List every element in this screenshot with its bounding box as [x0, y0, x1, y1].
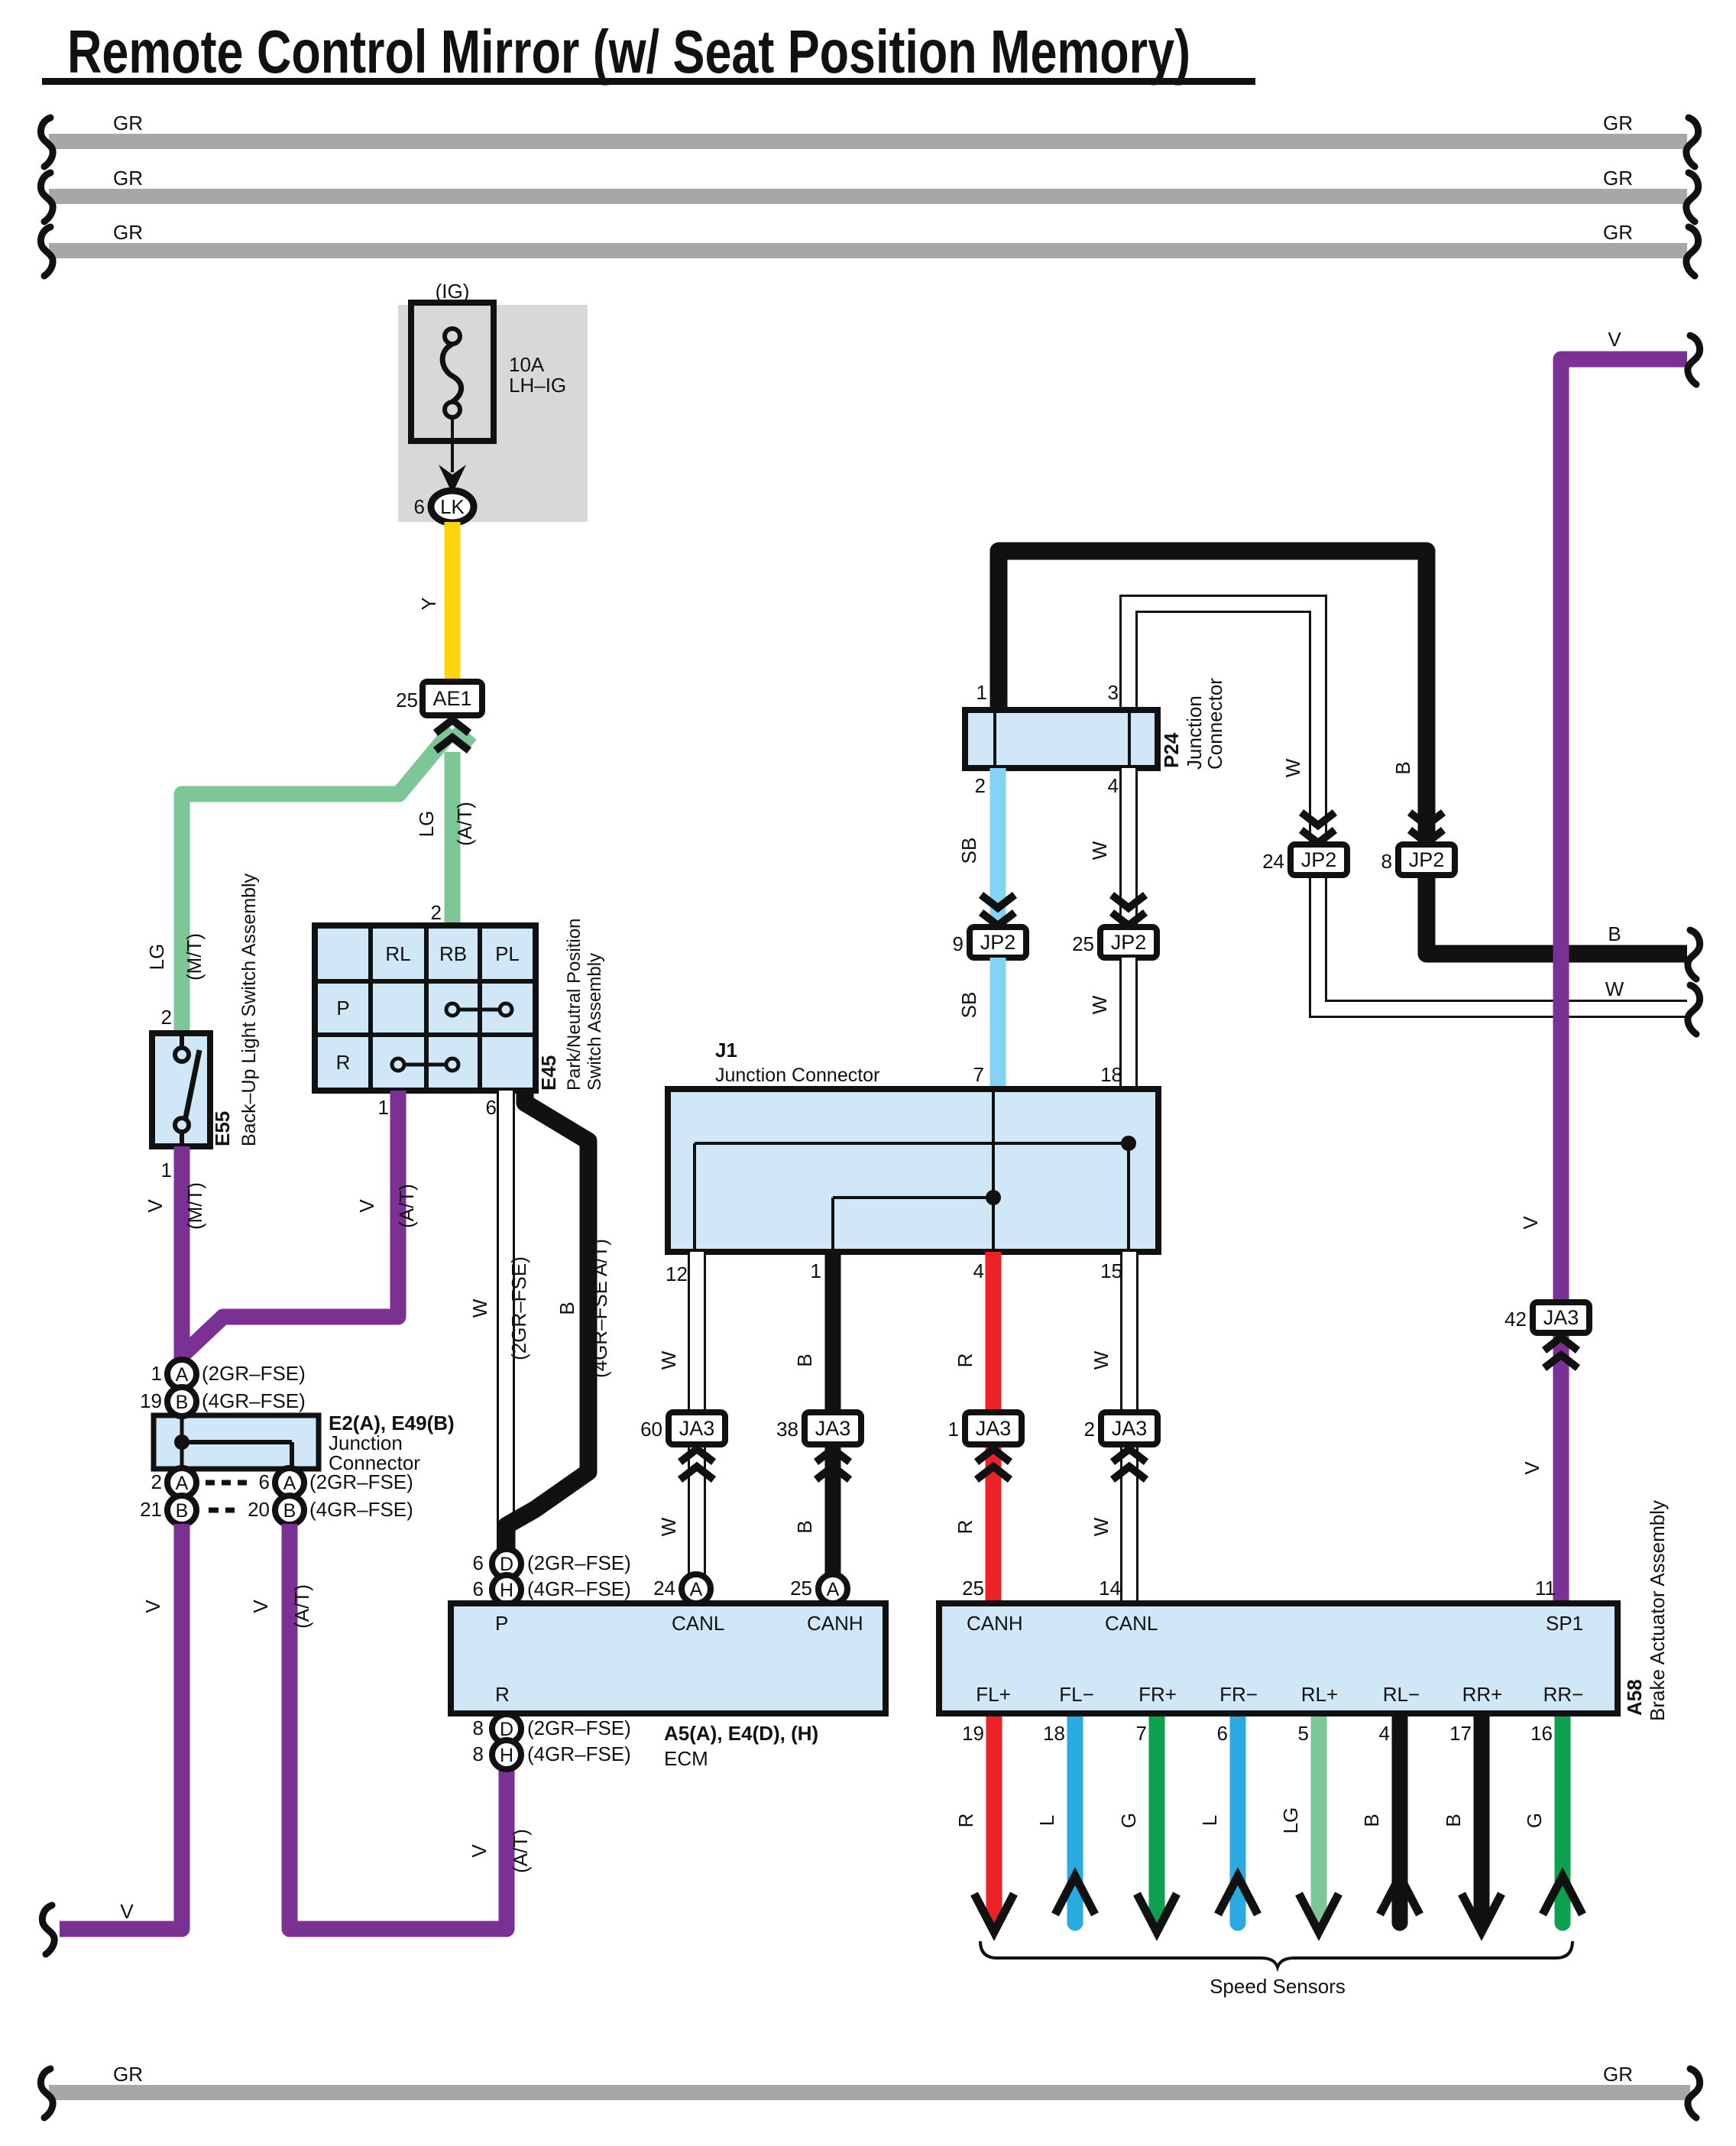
svg-text:V: V [1608, 328, 1621, 351]
wire SB P24 to JP2 9 [957, 768, 998, 927]
wire R J1 pin4 to JA3 1 [954, 1252, 993, 1412]
svg-text:B: B [1360, 1814, 1383, 1827]
svg-text:Switch Assembly: Switch Assembly [585, 953, 605, 1091]
connector JA3 38 [776, 1412, 861, 1444]
pin 1 label J1 [811, 1259, 821, 1282]
svg-text:L: L [1035, 1815, 1058, 1826]
svg-text:(2GR–FSE): (2GR–FSE) [202, 1362, 306, 1385]
svg-text:JP2: JP2 [1111, 931, 1147, 954]
svg-text:9: 9 [953, 932, 964, 955]
wire R JA3 1 to A58 [954, 1444, 993, 1603]
svg-text:3: 3 [1108, 681, 1119, 704]
svg-text:1: 1 [378, 1096, 389, 1119]
svg-text:A: A [176, 1364, 189, 1386]
pin 3 label P24 [1108, 681, 1119, 704]
terminal 6 LK [414, 491, 474, 523]
label A5(A) E4(D) (H) [664, 1722, 818, 1745]
svg-text:W: W [468, 1298, 491, 1318]
svg-text:W: W [1605, 977, 1624, 1000]
svg-text:GR: GR [113, 167, 143, 190]
svg-text:A58: A58 [1623, 1679, 1646, 1716]
svg-text:(4GR–FSE): (4GR–FSE) [527, 1577, 631, 1600]
chevrons from JA3 42 [1544, 1337, 1578, 1368]
svg-text:A: A [690, 1579, 703, 1600]
svg-text:E45: E45 [537, 1055, 560, 1091]
svg-text:V: V [120, 1900, 134, 1923]
pin 4 label J1 [973, 1259, 984, 1282]
dashes B row [209, 1508, 235, 1513]
fuse block background [398, 305, 588, 522]
svg-text:A: A [827, 1579, 840, 1600]
pin 1 label E55 [161, 1159, 172, 1182]
wire W P24 pin3 to JP2 pin24 [1129, 604, 1318, 844]
chevrons into JP2 25 [1112, 895, 1145, 926]
svg-text:CANH: CANH [807, 1612, 863, 1635]
pin 25 label [396, 689, 418, 712]
connector JP2 25 [1072, 927, 1157, 958]
svg-text:B: B [176, 1500, 189, 1522]
svg-text:(M/T): (M/T) [183, 933, 206, 981]
svg-text:6: 6 [473, 1551, 484, 1574]
wire GR rail 1 [40, 112, 1698, 167]
A58 box [939, 1603, 1618, 1713]
svg-text:(A/T): (A/T) [290, 1584, 313, 1629]
label E55 [211, 1111, 234, 1146]
svg-text:RL−: RL− [1383, 1683, 1420, 1706]
svg-text:D: D [500, 1719, 513, 1740]
svg-text:V: V [144, 1199, 167, 1213]
wire W J1 pin15 to JA3 2 [1090, 1252, 1129, 1412]
wire V A/T E45 to E2 [183, 1091, 418, 1354]
svg-text:Connector: Connector [1203, 678, 1226, 770]
wire GR rail 3 [40, 221, 1698, 276]
svg-text:JA3: JA3 [679, 1417, 715, 1440]
svg-text:P: P [336, 997, 349, 1020]
label Back-Up Light Switch Assembly [238, 873, 260, 1146]
terminal 21 B [140, 1496, 196, 1525]
svg-text:60: 60 [640, 1418, 662, 1441]
svg-text:E55: E55 [211, 1111, 234, 1146]
svg-text:4: 4 [1108, 774, 1119, 797]
wire GR rail bottom [40, 2063, 1699, 2118]
wire V right edge to JA3 42 [1519, 328, 1700, 1302]
connector JA3 1 [948, 1412, 1022, 1444]
svg-text:GR: GR [113, 221, 143, 244]
svg-text:CANL: CANL [672, 1612, 724, 1635]
svg-text:Back–Up Light Switch Assembly: Back–Up Light Switch Assembly [238, 873, 260, 1146]
svg-text:Y: Y [417, 597, 440, 610]
svg-text:G: G [1523, 1813, 1546, 1828]
svg-text:38: 38 [776, 1418, 798, 1441]
connector JP2 9 [953, 927, 1026, 958]
wire V A/T E2 to ECM [249, 1524, 532, 1929]
wire W JP2 pin24 to right edge [1318, 875, 1700, 1034]
pin 2 label P24 [975, 774, 986, 797]
label ECM [664, 1747, 708, 1770]
label E2(A) E49(B) [329, 1412, 455, 1434]
pin 4 label P24 [1108, 774, 1119, 797]
label Park/Neutral Position [564, 919, 585, 1091]
svg-text:L: L [1198, 1815, 1221, 1826]
pin 15 label J1 [1100, 1259, 1122, 1282]
svg-text:8: 8 [473, 1742, 484, 1765]
wire B speed sensor pin 17 [1442, 1716, 1501, 1932]
svg-text:JP2: JP2 [1409, 848, 1445, 871]
svg-text:B: B [1442, 1814, 1465, 1827]
connector JP2 24 [1262, 844, 1347, 875]
svg-text:1: 1 [811, 1259, 821, 1282]
chevrons into JP2 24 [1301, 812, 1335, 843]
svg-text:V: V [249, 1600, 272, 1613]
svg-text:RR+: RR+ [1462, 1683, 1503, 1706]
svg-text:2: 2 [151, 1470, 162, 1493]
svg-text:FR+: FR+ [1138, 1683, 1177, 1706]
svg-text:B: B [555, 1302, 578, 1315]
label J1 [715, 1039, 737, 1062]
svg-text:1: 1 [976, 681, 987, 704]
svg-text:21: 21 [140, 1498, 162, 1521]
junction connector E2 E49 box [154, 1415, 319, 1469]
chevrons into AE1 [436, 720, 469, 750]
svg-text:H: H [500, 1580, 513, 1601]
connector JP2 8 [1381, 844, 1455, 875]
wire LG M/T branch [145, 730, 452, 1033]
chevrons from JA3 38 [816, 1449, 850, 1480]
svg-text:Junction: Junction [1183, 695, 1206, 770]
svg-text:D: D [500, 1554, 513, 1575]
terminal 6 D 2GR-FSE [473, 1549, 631, 1578]
svg-text:25: 25 [962, 1577, 984, 1600]
svg-text:17: 17 [1449, 1722, 1472, 1745]
terminal 6 H 4GR-FSE [473, 1575, 631, 1604]
wire B P24 pin1 to JP2 pin8 [999, 551, 1427, 844]
label Brake Actuator Assembly [1646, 1500, 1669, 1721]
svg-text:SB: SB [957, 992, 980, 1019]
label A58 [1623, 1679, 1646, 1716]
svg-text:JA3: JA3 [1543, 1306, 1579, 1329]
wire B JA3 38 to ECM 25A [793, 1444, 833, 1575]
svg-text:JA3: JA3 [976, 1417, 1012, 1440]
svg-text:19: 19 [140, 1389, 162, 1412]
pin 2 label E55 [161, 1006, 172, 1029]
svg-text:V: V [355, 1199, 378, 1213]
wire B JP2 pin8 to right edge [1427, 875, 1700, 979]
svg-text:LG: LG [415, 811, 438, 838]
svg-text:(A/T): (A/T) [509, 1829, 532, 1873]
svg-text:(2GR–FSE): (2GR–FSE) [507, 1256, 530, 1360]
svg-text:SB: SB [957, 838, 980, 864]
svg-text:V: V [141, 1600, 164, 1613]
svg-text:R: R [495, 1683, 510, 1706]
svg-text:Park/Neutral Position: Park/Neutral Position [564, 919, 585, 1091]
svg-text:G: G [1117, 1813, 1140, 1828]
svg-text:1: 1 [151, 1362, 162, 1385]
svg-text:W: W [1090, 1350, 1113, 1370]
pin 18 label [1100, 1063, 1122, 1086]
label E45 [537, 1055, 560, 1091]
label P24 Junction [1183, 695, 1206, 770]
svg-text:AE1: AE1 [432, 687, 471, 710]
svg-text:V: V [468, 1844, 491, 1858]
pin 11 label A58 [1535, 1577, 1556, 1600]
svg-text:19: 19 [962, 1722, 984, 1745]
svg-text:V: V [1521, 1461, 1543, 1475]
switch E55 [152, 1033, 210, 1146]
ECM box [451, 1603, 886, 1713]
label P24 [1160, 732, 1183, 768]
svg-text:ECM: ECM [664, 1747, 708, 1770]
svg-text:RR−: RR− [1543, 1683, 1584, 1706]
svg-text:25: 25 [1072, 932, 1094, 955]
label (IG) [436, 280, 470, 303]
svg-text:(IG): (IG) [436, 280, 470, 303]
chevrons from JA3 2 [1113, 1449, 1146, 1480]
pin 1 label E45 [378, 1096, 389, 1119]
svg-text:RB: RB [439, 942, 467, 965]
svg-text:CANL: CANL [1105, 1612, 1158, 1635]
svg-text:(4GR–FSE): (4GR–FSE) [527, 1742, 631, 1765]
svg-text:16: 16 [1530, 1722, 1553, 1745]
svg-text:SP1: SP1 [1546, 1612, 1583, 1635]
svg-text:V: V [1519, 1216, 1542, 1230]
svg-text:B: B [793, 1520, 816, 1533]
label B JP2 pin8 wire [1391, 761, 1414, 774]
pin 2 label E45 [431, 901, 442, 924]
svg-text:J1: J1 [715, 1039, 737, 1062]
pin 1 label P24 [976, 681, 987, 704]
svg-text:B: B [793, 1353, 816, 1366]
svg-text:R: R [954, 1814, 977, 1828]
svg-text:Brake Actuator Assembly: Brake Actuator Assembly [1646, 1500, 1669, 1721]
wire GR rail 2 [40, 167, 1698, 222]
svg-text:GR: GR [1603, 2063, 1633, 2086]
wire V E2 to left edge [42, 1524, 182, 1954]
chevrons from JA3 60 [680, 1449, 714, 1480]
svg-text:(4GR–FSE A/T): (4GR–FSE A/T) [588, 1239, 611, 1378]
svg-text:24: 24 [653, 1577, 675, 1600]
svg-text:CANH: CANH [967, 1612, 1023, 1635]
label Speed Sensors [1210, 1975, 1346, 1998]
svg-text:4: 4 [1379, 1722, 1390, 1745]
svg-text:14: 14 [1099, 1577, 1121, 1600]
svg-text:GR: GR [1603, 112, 1633, 135]
svg-text:B: B [1391, 761, 1414, 774]
svg-text:6: 6 [486, 1096, 497, 1119]
diagram title [42, 18, 1255, 86]
terminal 2 A [151, 1468, 196, 1497]
svg-text:(A/T): (A/T) [395, 1184, 418, 1228]
svg-text:B: B [1608, 922, 1621, 945]
svg-text:P24: P24 [1160, 732, 1183, 768]
label J1 Junction Connector [715, 1065, 879, 1086]
svg-text:JA3: JA3 [1112, 1417, 1148, 1440]
svg-text:LG: LG [1279, 1807, 1302, 1834]
svg-text:LH–IG: LH–IG [509, 374, 566, 397]
svg-text:(4GR–FSE): (4GR–FSE) [202, 1389, 306, 1412]
svg-text:RL+: RL+ [1301, 1683, 1338, 1706]
svg-text:Speed Sensors: Speed Sensors [1210, 1975, 1346, 1998]
svg-text:18: 18 [1100, 1063, 1122, 1086]
svg-text:R: R [954, 1353, 976, 1368]
connector JA3 42 [1504, 1302, 1589, 1333]
svg-text:(A/T): (A/T) [453, 802, 476, 846]
svg-text:H: H [500, 1745, 513, 1766]
wire B J1 pin1 to JA3 38 [793, 1252, 833, 1412]
svg-text:A: A [283, 1473, 296, 1494]
svg-text:B: B [176, 1392, 189, 1413]
wire fuse output [439, 417, 466, 494]
svg-text:R: R [954, 1520, 976, 1535]
connector AE1 [423, 682, 482, 715]
connector JA3 2 [1084, 1412, 1158, 1444]
svg-text:W: W [657, 1517, 680, 1536]
svg-text:24: 24 [1262, 850, 1284, 873]
wire L speed sensor pin 18 [1035, 1716, 1095, 1931]
pin 7 label [973, 1063, 984, 1086]
svg-text:FR−: FR− [1219, 1683, 1258, 1706]
svg-text:FL+: FL+ [976, 1683, 1011, 1706]
terminal 1 A 2GR-FSE [151, 1360, 306, 1389]
svg-text:20: 20 [248, 1498, 270, 1521]
svg-text:GR: GR [1603, 167, 1633, 190]
svg-text:12: 12 [666, 1263, 688, 1285]
svg-text:B: B [283, 1500, 296, 1522]
svg-text:15: 15 [1100, 1259, 1122, 1282]
svg-text:11: 11 [1535, 1577, 1556, 1600]
svg-text:GR: GR [1603, 221, 1633, 244]
svg-text:W: W [657, 1350, 680, 1370]
svg-text:RL: RL [385, 942, 410, 965]
chevrons into JP2 9 [981, 895, 1015, 926]
wire W JA3 2 to A58 [1090, 1444, 1129, 1603]
label Junction [329, 1431, 403, 1454]
fuse 10A LH-IG [411, 303, 566, 441]
wire R speed sensor pin 19 [954, 1716, 1014, 1932]
svg-text:A5(A), E4(D), (H): A5(A), E4(D), (H) [664, 1722, 818, 1745]
wire B 4GR-FSE A/T E45 to ECM [507, 1091, 611, 1576]
svg-text:R: R [336, 1051, 351, 1074]
svg-text:(2GR–FSE): (2GR–FSE) [527, 1716, 631, 1739]
pin 6 label E45 [486, 1096, 497, 1119]
svg-text:GR: GR [113, 2063, 143, 2086]
wire B speed sensor pin 4 [1360, 1716, 1420, 1931]
svg-text:7: 7 [1136, 1722, 1147, 1745]
terminal 24 A ECM [653, 1574, 711, 1603]
svg-text:GR: GR [113, 112, 143, 135]
wire LG A/T to E45 [415, 730, 476, 926]
junction connector P24 [965, 710, 1158, 768]
speed sensors brace [980, 1941, 1572, 1967]
wire W JP2 25 to J1 [1088, 958, 1129, 1089]
svg-text:6: 6 [1217, 1722, 1228, 1745]
pin 14 label A58 [1099, 1577, 1121, 1600]
svg-text:1: 1 [948, 1418, 959, 1441]
svg-text:A: A [176, 1473, 189, 1494]
terminal 6 A 2GR-FSE [259, 1468, 413, 1497]
terminal 20 B 4GR-FSE [248, 1496, 413, 1525]
svg-text:8: 8 [1381, 850, 1392, 873]
svg-text:LG: LG [145, 944, 168, 971]
svg-text:2: 2 [161, 1006, 172, 1029]
svg-text:2: 2 [975, 774, 986, 797]
svg-text:18: 18 [1043, 1722, 1065, 1745]
terminal 19 B 4GR-FSE [140, 1387, 306, 1416]
switch E45 park/neutral position [315, 926, 536, 1091]
svg-text:25: 25 [396, 689, 418, 712]
svg-text:Junction Connector: Junction Connector [715, 1065, 879, 1086]
wire V JA3 42 to A58 [1521, 1334, 1561, 1603]
pin 12 label [666, 1263, 688, 1285]
svg-text:5: 5 [1298, 1722, 1309, 1745]
chevrons from JA3 1 [976, 1449, 1010, 1480]
label Connector [329, 1451, 420, 1474]
wire W 2GR-FSE E45 to ECM [468, 1091, 530, 1550]
svg-text:8: 8 [473, 1716, 484, 1739]
wire LG speed sensor pin 5 [1279, 1716, 1339, 1932]
svg-text:(M/T): (M/T) [183, 1182, 206, 1230]
svg-text:42: 42 [1504, 1308, 1527, 1331]
wire G speed sensor pin 16 [1523, 1716, 1582, 1931]
wire L speed sensor pin 6 [1198, 1716, 1258, 1931]
svg-text:JP2: JP2 [980, 931, 1016, 954]
svg-text:(4GR–FSE): (4GR–FSE) [309, 1498, 413, 1521]
svg-text:P: P [495, 1612, 508, 1635]
svg-text:2: 2 [1084, 1418, 1095, 1441]
terminal 25 A ECM [790, 1574, 847, 1603]
connector JA3 60 [640, 1412, 725, 1444]
svg-text:2: 2 [431, 901, 442, 924]
svg-text:6: 6 [414, 495, 425, 518]
label P24 Connector [1203, 678, 1226, 770]
wire W JA3 60 to ECM 24A [657, 1444, 697, 1575]
wire Y fuse to AE1 [417, 522, 452, 682]
wire W J1 pin12 to JA3 60 [657, 1252, 697, 1412]
svg-text:25: 25 [790, 1577, 812, 1600]
wire SB JP2 9 to J1 [957, 958, 998, 1089]
pin 25 label A58 [962, 1577, 984, 1600]
svg-text:7: 7 [973, 1063, 984, 1086]
chevrons into JP2 8 [1410, 812, 1443, 843]
svg-text:W: W [1088, 841, 1111, 860]
wire V M/T E55 to E2 [144, 1146, 206, 1360]
svg-text:10A: 10A [509, 353, 545, 376]
svg-text:LK: LK [440, 495, 465, 518]
svg-text:Remote Control Mirror (w/ Seat: Remote Control Mirror (w/ Seat Position … [67, 18, 1190, 86]
svg-text:1: 1 [161, 1159, 172, 1182]
junction connector J1 box [668, 1089, 1158, 1252]
svg-text:W: W [1088, 995, 1111, 1014]
svg-text:W: W [1090, 1517, 1113, 1536]
dashes A row [206, 1480, 247, 1486]
wire W P24 pin4 to JP2 25 [1088, 768, 1129, 927]
terminal 8 H 4GR-FSE [473, 1740, 631, 1769]
svg-text:FL−: FL− [1059, 1683, 1094, 1706]
svg-text:W: W [1281, 758, 1304, 777]
label Switch Assembly [585, 953, 605, 1091]
svg-text:JA3: JA3 [815, 1417, 851, 1440]
svg-text:4: 4 [973, 1259, 984, 1282]
svg-text:6: 6 [473, 1577, 484, 1600]
svg-text:Connector: Connector [329, 1451, 420, 1474]
svg-text:6: 6 [259, 1470, 270, 1493]
A58 bottom pin names [976, 1683, 1583, 1706]
svg-text:(2GR–FSE): (2GR–FSE) [527, 1551, 631, 1574]
terminal 8 D 2GR-FSE [473, 1714, 631, 1743]
svg-text:JP2: JP2 [1301, 848, 1337, 871]
wire G speed sensor pin 7 [1117, 1716, 1177, 1932]
svg-text:PL: PL [495, 942, 520, 965]
